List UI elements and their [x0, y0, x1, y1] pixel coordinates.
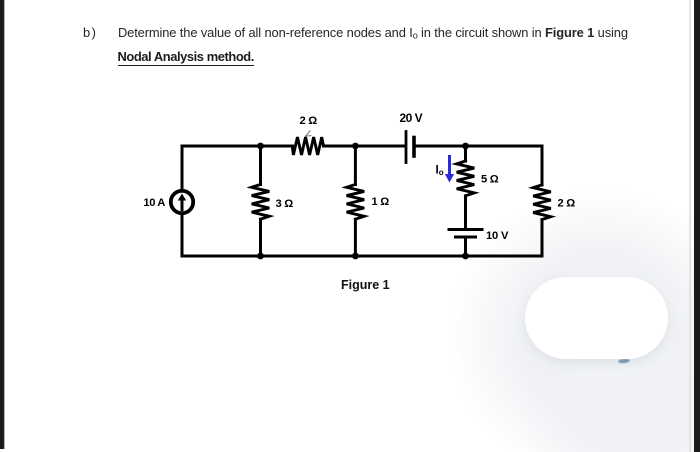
- current source I=10A circle: [171, 191, 193, 213]
- resistor 2ohm right: [533, 185, 551, 220]
- wire bottom (182,256)-(542,256): [182, 255, 542, 258]
- svg-text:2 Ω: 2 Ω: [558, 198, 576, 210]
- wire right branch upper: [541, 146, 544, 185]
- resistor 5ohm: [457, 161, 475, 196]
- wire branch-3 upper: [354, 146, 357, 185]
- stray pen mark: [306, 131, 311, 136]
- wire left branch upper: [181, 146, 184, 190]
- blue dash on capsule edge: [618, 358, 630, 363]
- white capsule: [525, 277, 668, 359]
- wire branch-4 lower: [464, 238, 467, 256]
- svg-text:Io: Io: [436, 165, 444, 178]
- node dot top D: [462, 143, 469, 150]
- svg-text:20 V: 20 V: [400, 111, 423, 125]
- node dot bottom D: [462, 253, 469, 260]
- svg-text:2 Ω: 2 Ω: [300, 115, 318, 127]
- voltage source 20V right plate: [412, 138, 416, 157]
- node dot top B: [257, 143, 264, 150]
- battery 10V top plate: [449, 228, 482, 231]
- wire branch-4 middle: [464, 196, 467, 229]
- problem text line 1: [83, 25, 693, 44]
- resistor 3ohm: [252, 184, 270, 219]
- left page edge bar: [0, 0, 5, 449]
- svg-text:3 Ω: 3 Ω: [276, 198, 294, 210]
- problem text line 2: [118, 49, 254, 66]
- wire right branch lower: [541, 220, 544, 256]
- caption Figure 1: [341, 278, 390, 292]
- node dot top C: [352, 143, 359, 150]
- wire branch-4 upper: [464, 146, 467, 161]
- current Io blue arrow: [445, 157, 454, 183]
- svg-text:10 V: 10 V: [486, 230, 509, 242]
- wire left branch lower: [181, 214, 184, 256]
- wire top-left segment (182,146)-(292,146): [182, 145, 292, 148]
- wire top segment (324,146)-(405,146) between 2ohm and 20V: [324, 145, 405, 148]
- right page edge bar: [694, 0, 700, 452]
- battery 10V bottom plate: [456, 236, 476, 239]
- resistor 2ohm horizontal top: [292, 137, 323, 155]
- node dot bottom C: [352, 253, 359, 260]
- resistor 1ohm: [347, 184, 365, 219]
- right faint line: [689, 0, 691, 452]
- wire top-right segment (416,146)-(542,146): [416, 145, 542, 148]
- current source arrow: [178, 194, 186, 210]
- gray wash bottom-right: [420, 175, 700, 452]
- svg-text:1 Ω: 1 Ω: [372, 196, 390, 208]
- voltage source 20V left plate: [405, 132, 408, 163]
- node dot bottom B: [257, 253, 264, 260]
- gray wash lower extension: [500, 330, 700, 452]
- svg-text:5 Ω: 5 Ω: [481, 174, 499, 186]
- wire branch-2 upper: [259, 146, 262, 185]
- wire branch-3 lower: [354, 219, 357, 256]
- svg-text:10 A: 10 A: [143, 197, 165, 209]
- wire branch-2 lower: [259, 219, 262, 256]
